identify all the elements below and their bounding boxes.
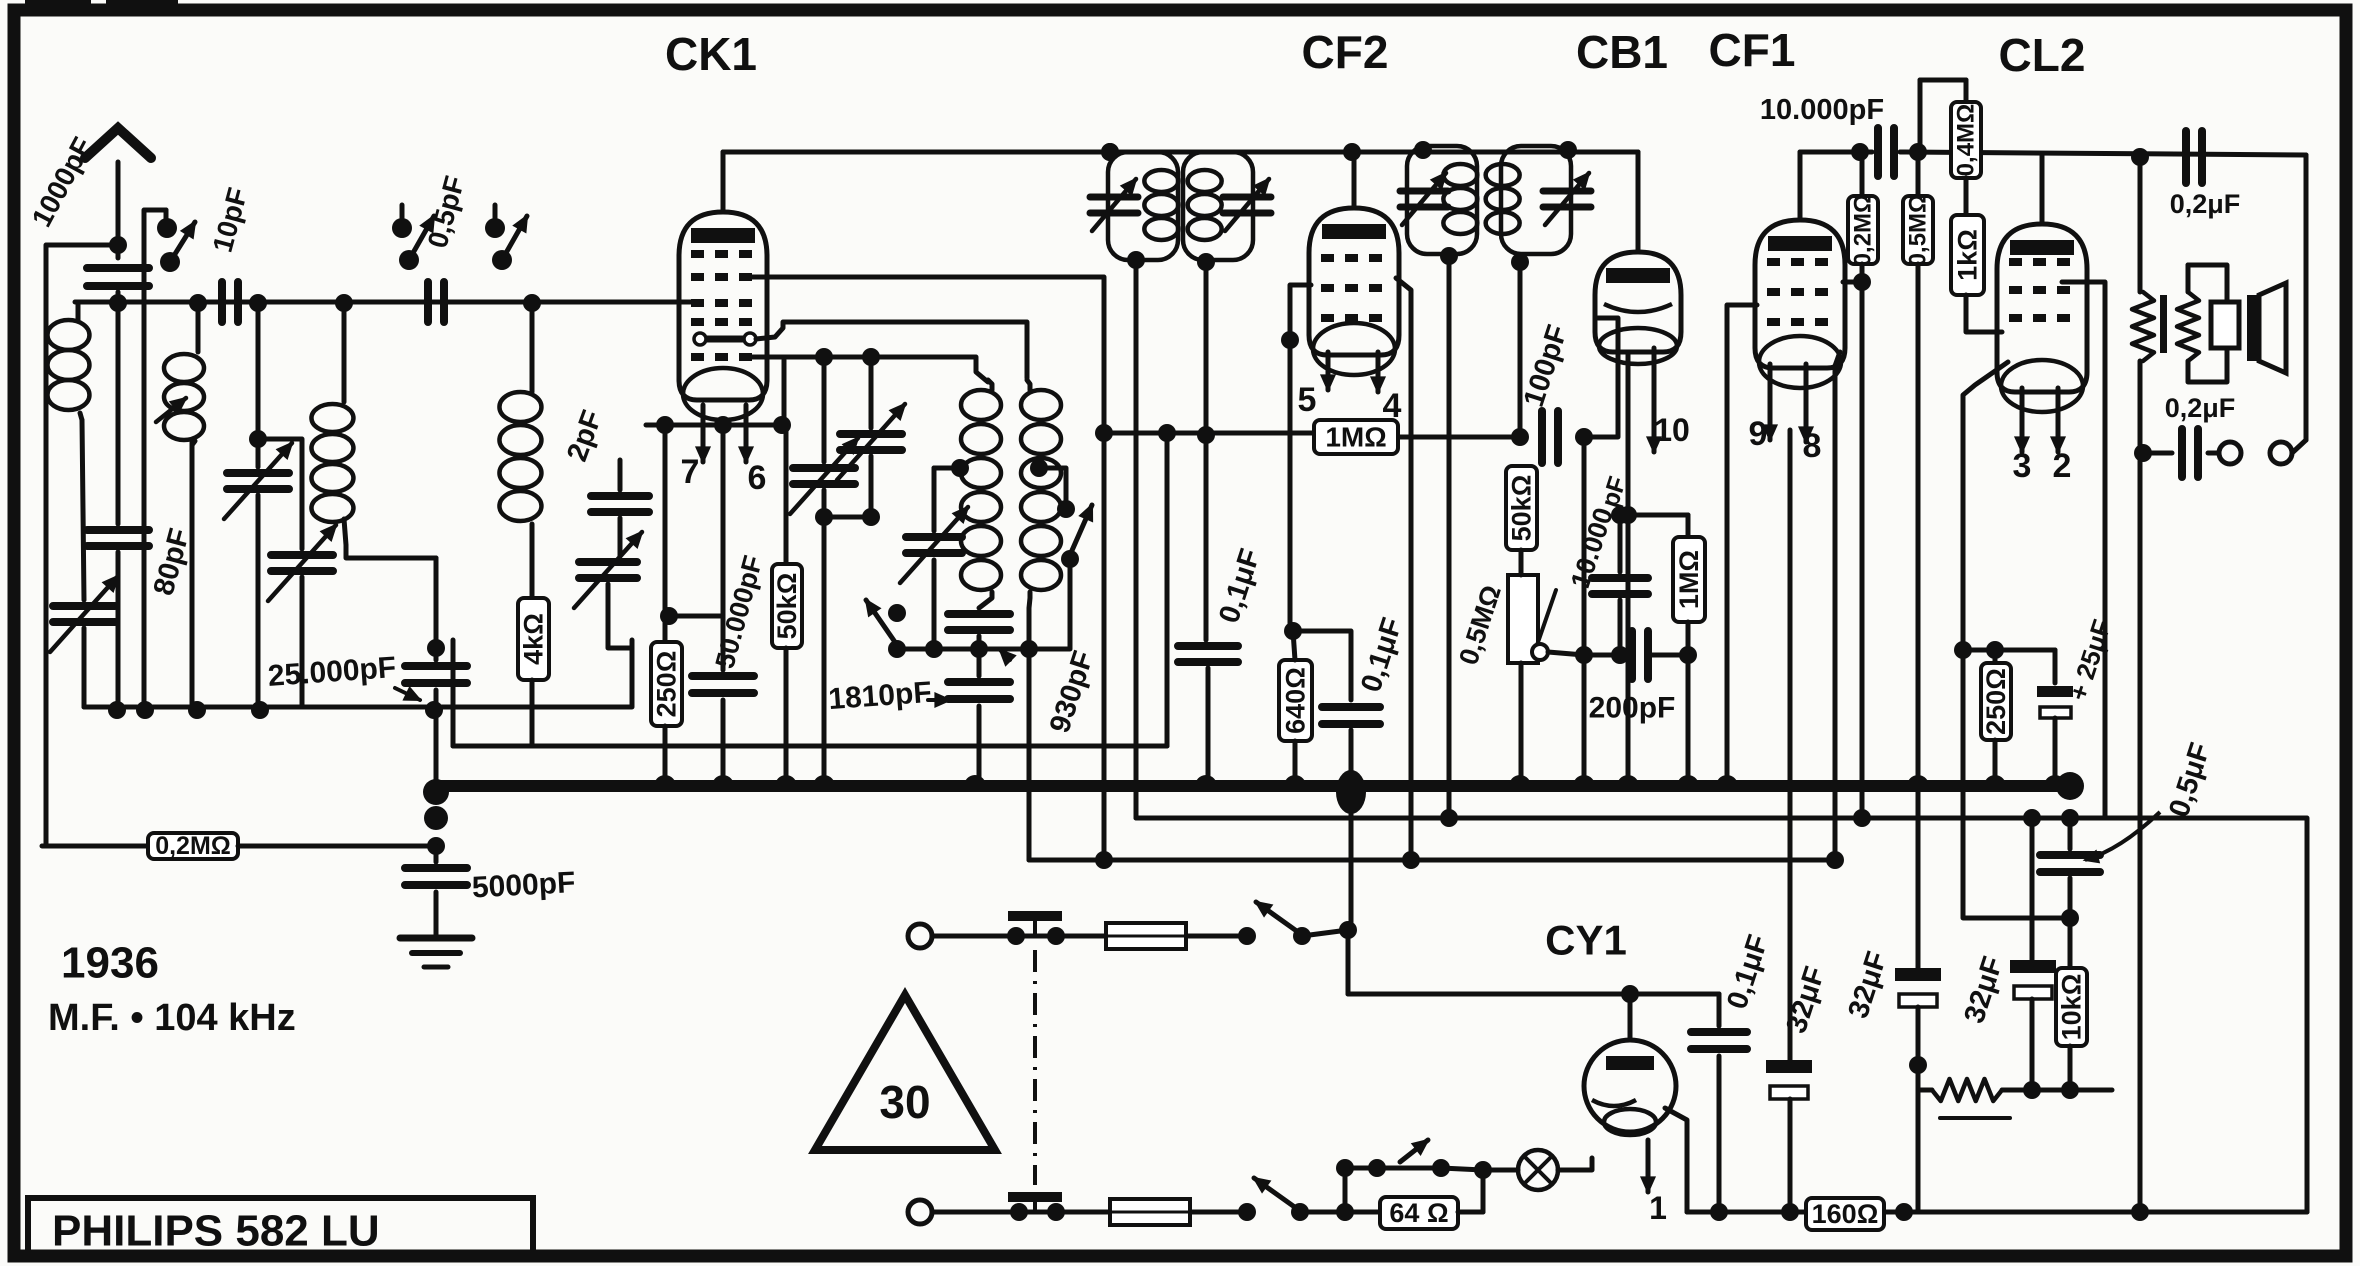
svg-text:1MΩ: 1MΩ	[1325, 422, 1386, 453]
capacitor 0,2uF top	[2186, 131, 2202, 183]
svg-text:4kΩ: 4kΩ	[519, 613, 549, 665]
mains cap bottom	[1008, 1192, 1062, 1202]
svg-text:CL2: CL2	[1999, 29, 2086, 81]
node osc bottom line	[897, 647, 1029, 652]
bus junction x1918	[1907, 775, 1929, 786]
wire 0,4M chain top	[1916, 150, 1921, 155]
switch S2	[400, 205, 405, 226]
bus junction x1295	[1284, 775, 1306, 786]
capacitor 80pF	[116, 302, 121, 524]
ground symbol	[400, 935, 472, 942]
node 640 top	[1284, 622, 1302, 640]
capacitor 1000pF	[87, 268, 149, 286]
coil L1	[76, 304, 81, 320]
svg-text:250Ω: 250Ω	[1981, 668, 2011, 735]
wire left edge vertical	[46, 245, 118, 846]
IF1 left trimmer	[1090, 197, 1138, 213]
wire row right of 64	[1458, 1210, 1483, 1215]
wire y515 link	[1628, 513, 1688, 518]
coil L4	[530, 302, 535, 392]
resistor 50kOhm mid	[1506, 466, 1537, 550]
capacitor 0,5uF right	[2068, 818, 2073, 849]
svg-text:30: 30	[879, 1076, 930, 1128]
svg-text:1: 1	[1649, 1190, 1667, 1226]
wire right loop	[2304, 155, 2309, 440]
capacitor 200pF	[1632, 631, 1648, 679]
capacitor 0,1uF A	[1204, 638, 1209, 640]
oscillator coil left	[961, 390, 1001, 420]
svg-text:10: 10	[1654, 412, 1690, 448]
bus junction x723	[712, 775, 734, 786]
capacitor 25.000pF	[434, 558, 439, 660]
node 100pF left	[1511, 428, 1529, 446]
capacitor 10000pF mid	[1618, 515, 1623, 572]
variable capacitor left low	[82, 420, 84, 600]
terminal circle left	[2219, 442, 2241, 464]
resistor 0,2MOhm grid box	[42, 844, 148, 849]
switch osc left	[866, 600, 897, 645]
wire avc join	[1165, 433, 1170, 746]
wire grid line y302	[75, 300, 700, 305]
svg-text:200pF: 200pF	[1589, 692, 1676, 725]
variable capacitor C3	[258, 439, 302, 549]
svg-text:7: 7	[681, 453, 700, 491]
wire zig right	[2070, 1088, 2112, 1093]
variable capacitor C2	[256, 302, 261, 467]
capacitor 32uF no1	[1766, 1060, 1812, 1073]
ground bus	[436, 780, 2070, 792]
wire IF1 right down	[1204, 262, 1209, 638]
wire line y860	[1029, 858, 1835, 863]
pin 2 arrow	[2056, 388, 2061, 452]
wire CF2 top stem	[1352, 152, 1357, 208]
svg-text:0,2MΩ: 0,2MΩ	[1850, 194, 1877, 267]
svg-text:10kΩ: 10kΩ	[2057, 974, 2087, 1041]
svg-text:0,4MΩ: 0,4MΩ	[1953, 104, 1980, 177]
svg-text:PHILIPS 582 LU: PHILIPS 582 LU	[52, 1207, 380, 1256]
svg-text:0,5MΩ: 0,5MΩ	[1905, 194, 1932, 267]
capacitor 0,2uF bottom	[2143, 451, 2172, 456]
wire lamp link	[1441, 1168, 1483, 1170]
bus junction x1688	[1677, 775, 1699, 786]
IF2 right coil	[1486, 164, 1520, 186]
top-left corner tabs	[25, 0, 91, 10]
node IF2 left bottom	[1440, 247, 1458, 265]
bus junction x1584	[1573, 775, 1595, 786]
svg-text:CK1: CK1	[665, 28, 757, 80]
svg-text:1kΩ: 1kΩ	[1953, 229, 1983, 281]
svg-text:50kΩ: 50kΩ	[772, 573, 802, 640]
pin 1 arrow	[1646, 1140, 1651, 1192]
svg-text:CY1: CY1	[1545, 917, 1627, 964]
node dots y710	[108, 701, 126, 719]
svg-text:8: 8	[1803, 427, 1822, 465]
wire antenna to grid line	[116, 292, 121, 302]
wire lamp row	[1345, 1168, 1441, 1212]
coil L3	[342, 304, 347, 402]
node on grid line	[109, 294, 127, 312]
wire after fuse b	[1190, 1210, 1247, 1215]
bus end blob	[2056, 772, 2084, 800]
pin 10 arrow	[1652, 348, 1657, 452]
bus junction x1628	[1617, 775, 1639, 786]
resistor hum zigzag	[1932, 1079, 2002, 1101]
svg-text:M.F. • 104 kHz: M.F. • 104 kHz	[48, 997, 296, 1039]
bus junction x665	[654, 775, 676, 786]
capacitor 10.000pF	[1878, 128, 1894, 176]
wire bottom B row	[1687, 1210, 2307, 1215]
wire CK1 top stem	[721, 152, 726, 212]
svg-text:0,2μF: 0,2μF	[2165, 393, 2236, 423]
wire CL2 cathode	[1963, 362, 2070, 918]
svg-text:2: 2	[2053, 447, 2072, 485]
svg-text:3: 3	[2013, 447, 2032, 485]
resistor 0,5MOhm right	[1916, 152, 1921, 196]
switch mains bottom	[1238, 1203, 1256, 1221]
wire to B rail	[1302, 928, 1348, 936]
mains terminal bottom	[908, 1200, 932, 1224]
switch S3	[493, 205, 498, 226]
variable capacitor padder B	[869, 357, 874, 428]
node y860 dots	[1095, 851, 1113, 869]
IF2 left trimmer	[1400, 191, 1448, 207]
capacitor 1810pF lower	[977, 656, 982, 676]
wire CF1 cath	[1835, 352, 1840, 366]
pin 6 arrow	[744, 405, 749, 462]
wire mains bottom	[932, 1210, 1110, 1215]
bus junction x1727	[1716, 775, 1738, 786]
tube CL2	[1997, 224, 2087, 392]
resistor 160Ohm box	[1806, 1198, 1884, 1230]
wire CF2 anode	[1396, 278, 1411, 860]
svg-text:50kΩ: 50kΩ	[1507, 475, 1537, 542]
pin 8 arrow	[1804, 364, 1809, 442]
resistor 10kOhm	[2068, 918, 2073, 968]
potentiometer 0,5MOhm	[1508, 575, 1538, 663]
resistor 64Ohm box	[1380, 1197, 1458, 1229]
variable capacitor padder A	[822, 357, 827, 462]
coil L2 with arrow	[196, 303, 201, 352]
svg-text:CF2: CF2	[1302, 26, 1389, 78]
wire B+ top line	[1800, 150, 1872, 155]
bus start blob	[423, 779, 449, 805]
capacitor 5000pF	[434, 846, 439, 862]
wire mains top	[932, 934, 1106, 939]
wire anode top line y152	[723, 150, 1638, 155]
IF1 right trimmer	[1223, 197, 1271, 213]
node row dots	[1710, 1203, 1728, 1221]
node osc taps	[815, 348, 833, 366]
wire B+ line y818	[1136, 818, 2307, 1212]
CK1 osc grid bar	[706, 336, 744, 343]
bus junction x786	[775, 775, 797, 786]
wire CK1 screen to CF2 line	[752, 277, 1104, 860]
wire osc return	[1027, 649, 1032, 860]
wire lamp right	[1558, 1158, 1592, 1170]
philips title box	[28, 1198, 533, 1258]
variable capacitor osc mid	[951, 459, 969, 477]
fuse bottom	[1110, 1199, 1190, 1225]
wire x1835 down	[1833, 366, 1838, 860]
wire left lower bus y707	[84, 640, 632, 707]
wire line y994	[1348, 992, 1719, 997]
bus junction x1206	[1195, 775, 1217, 786]
wire 1M line	[1104, 431, 1314, 436]
switch osc right	[1030, 459, 1048, 477]
wire CY1 top	[1628, 994, 1633, 1040]
switch mains top	[1238, 927, 1256, 945]
node IF1 left top	[1101, 143, 1119, 161]
speaker	[2211, 302, 2239, 348]
resistor 50kOhm	[784, 425, 789, 564]
wire CB1 cathode down	[1626, 352, 1631, 782]
pin 7 arrow	[701, 405, 706, 462]
bus junction x2055	[2044, 775, 2066, 786]
wire CL2 top stem	[2040, 155, 2045, 224]
svg-text:1MΩ: 1MΩ	[1674, 550, 1704, 609]
resistor 1kOhm	[1964, 178, 1969, 215]
wire tank2R bottom to 50k	[1518, 262, 1523, 437]
wire x1584 down	[1582, 437, 1587, 782]
tube CB1	[1595, 252, 1681, 352]
pin 9 arrow	[1768, 364, 1773, 440]
resistor 250Ohm out	[1993, 650, 1998, 663]
wire to CB1 grid	[1584, 318, 1618, 437]
wire CB1 top stem	[1636, 152, 1641, 252]
wire CK1 plate line y357	[752, 357, 988, 382]
transformer secondary	[2186, 265, 2191, 292]
tube CF2	[1309, 208, 1399, 355]
svg-text:160Ω: 160Ω	[1812, 1199, 1879, 1229]
bus junction x1520	[1509, 775, 1531, 786]
node jack tee	[2134, 444, 2152, 462]
wire 640 tee	[1293, 631, 1351, 700]
tube CY1	[1584, 1040, 1676, 1132]
wire CF1 anode	[1843, 280, 1862, 285]
wire IF1 left down	[1134, 260, 1139, 818]
svg-text:1936: 1936	[61, 939, 159, 988]
mains cap top	[1008, 911, 1062, 921]
tube CK1	[679, 212, 767, 400]
switch S1	[164, 210, 169, 222]
IF2 left coil	[1443, 164, 1477, 186]
wire CL2 anode	[2062, 282, 2105, 818]
capacitor 10pF	[222, 282, 238, 322]
resistor 640Ohm	[1279, 660, 1312, 741]
resistor 250Ohm	[663, 425, 668, 642]
svg-text:CF1: CF1	[1709, 24, 1796, 76]
chassis dash link	[1033, 950, 1037, 1185]
node IF1 left bottom	[1127, 251, 1145, 269]
wire 200pF line	[1548, 652, 1584, 655]
pin 5 arrow	[1326, 352, 1331, 390]
wire x1790 down	[1788, 430, 1793, 1058]
wire 80pF chain bottom	[116, 600, 121, 707]
IF2 tank right outline	[1501, 146, 1571, 254]
wire CF1 top stem	[1798, 152, 1803, 220]
wire avc line y746	[451, 640, 456, 746]
IF1 left coil	[1144, 170, 1178, 192]
wire IF2 left down	[1447, 256, 1452, 818]
resistor 4kOhm box	[530, 530, 535, 598]
IF1 tank left outline	[1108, 152, 1178, 260]
resistor field	[2138, 157, 2143, 292]
svg-text:250Ω: 250Ω	[652, 651, 682, 718]
IF1 right coil	[1188, 170, 1222, 192]
capacitor 0,5pF	[428, 282, 444, 322]
IF2 right trimmer	[1543, 191, 1591, 207]
capacitor 25uF	[2053, 650, 2058, 683]
wire CK1 cathode row	[646, 423, 786, 428]
bus junction x975	[964, 775, 986, 786]
svg-text:64 Ω: 64 Ω	[1389, 1198, 1448, 1228]
IF2 tank left outline	[1407, 146, 1477, 254]
svg-text:10.000pF: 10.000pF	[1760, 94, 1884, 126]
node 1M line dots	[1095, 424, 1113, 442]
wire after fuse	[1186, 934, 1247, 939]
capacitor 0,1uF ps	[1717, 994, 1722, 1026]
svg-text:640Ω: 640Ω	[1281, 667, 1311, 734]
svg-text:5000pF: 5000pF	[471, 866, 576, 904]
resistor 1MOhm horizontal	[1314, 420, 1398, 454]
resistor 0,2MOhm	[1860, 152, 1865, 196]
triangle 30	[815, 995, 995, 1150]
tube CF1	[1755, 220, 1845, 368]
node y818 dots	[1440, 809, 1458, 827]
fuse top	[1106, 923, 1186, 949]
bus junction x1995	[1984, 775, 2006, 786]
node IF1 right bottom	[1197, 253, 1215, 271]
wire to 64 box	[1300, 1210, 1380, 1215]
wire CF2 grid	[1290, 285, 1311, 340]
bus junction x824	[813, 775, 835, 786]
lamp	[1518, 1150, 1558, 1190]
antenna	[116, 162, 121, 258]
terminal circle right	[2270, 442, 2292, 464]
oscillator coil right	[1021, 390, 1061, 420]
svg-text:0,2MΩ: 0,2MΩ	[155, 832, 231, 860]
pin 4 arrow	[1376, 352, 1381, 392]
capacitor 32uF no3	[2010, 960, 2056, 973]
resistor 1MOhm vertical	[1686, 515, 1691, 537]
node top dots	[1851, 143, 1869, 161]
node top line dots	[1101, 143, 1119, 161]
capacitor 100pF	[1542, 411, 1558, 463]
IF1 tank right outline	[1183, 152, 1253, 260]
bus big blob x1351	[1336, 770, 1366, 814]
capacitor 2pF chain	[618, 460, 623, 490]
pin 3 arrow	[2020, 388, 2025, 452]
node antenna junction	[109, 236, 127, 254]
capacitor 32uF no2	[1895, 968, 1941, 981]
svg-text:CB1: CB1	[1576, 26, 1668, 78]
svg-text:6: 6	[748, 459, 767, 497]
mains terminal top	[908, 924, 932, 948]
transformer core bar	[2160, 295, 2167, 353]
node cathode row dots	[656, 416, 674, 434]
capacitor 0,1uF B	[1322, 707, 1380, 724]
svg-text:5: 5	[1298, 381, 1317, 419]
svg-text:9: 9	[1749, 415, 1768, 453]
wire cath bias line	[1963, 648, 2055, 653]
capacitor 1810pF upper	[948, 614, 1010, 630]
capacitor 50.000pF	[721, 425, 726, 616]
node 100pF right	[1575, 428, 1593, 446]
wire CY1 cathode	[1665, 1108, 1687, 1212]
resistor 0,4MOhm	[1964, 80, 1969, 102]
wire L2 bottom	[190, 441, 195, 707]
wire osc top right	[756, 322, 1027, 378]
wire CF1 grid stub	[1727, 305, 1757, 782]
svg-text:0,2μF: 0,2μF	[2170, 189, 2241, 219]
